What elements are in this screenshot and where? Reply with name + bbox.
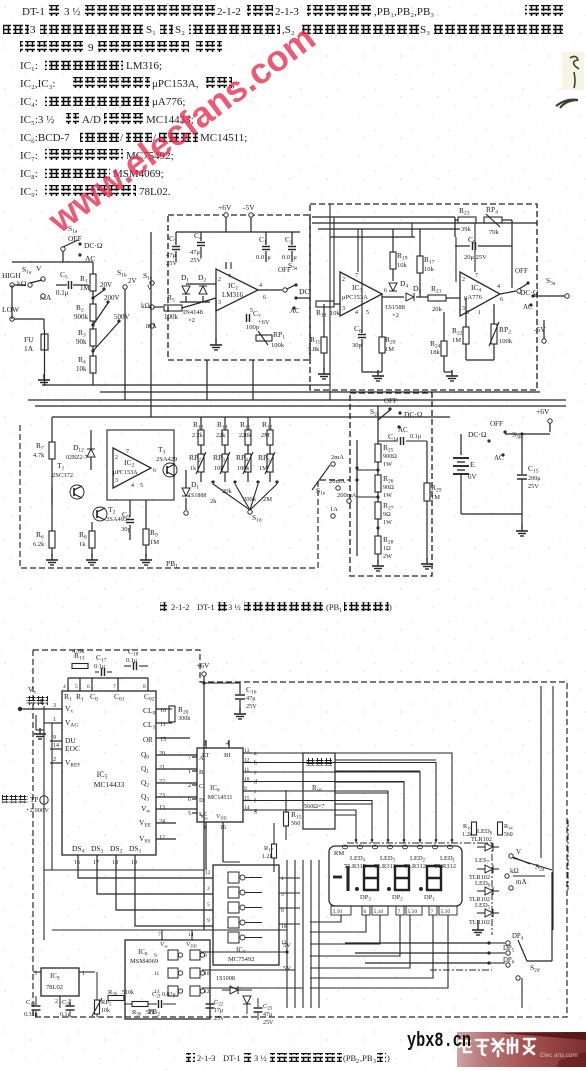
svg-text:19: 19 bbox=[131, 860, 137, 866]
svg-text:10k: 10k bbox=[101, 1008, 110, 1014]
svg-text:510k: 510k bbox=[122, 990, 134, 996]
svg-text:2SC372: 2SC372 bbox=[52, 472, 73, 479]
svg-text:E: E bbox=[40, 698, 44, 706]
svg-text:1W: 1W bbox=[383, 519, 392, 526]
svg-text:VDD: VDD bbox=[186, 942, 197, 949]
svg-text:TLR102: TLR102 bbox=[469, 919, 490, 926]
svg-text:A/D: A/D bbox=[82, 114, 101, 126]
svg-text:6: 6 bbox=[500, 297, 503, 303]
svg-text:25V: 25V bbox=[246, 703, 257, 710]
svg-text:kΩ: kΩ bbox=[141, 302, 150, 310]
svg-text:7: 7 bbox=[475, 273, 478, 279]
svg-text:IC₄:: IC₄: bbox=[20, 96, 38, 108]
svg-text:13: 13 bbox=[244, 748, 250, 754]
svg-text:EOC: EOC bbox=[65, 744, 80, 753]
svg-text:1M: 1M bbox=[385, 346, 394, 353]
svg-text:μPC153A: μPC153A bbox=[113, 469, 138, 476]
svg-text:(PB: (PB bbox=[343, 1053, 357, 1063]
svg-text:1M: 1M bbox=[259, 465, 268, 472]
svg-text:6: 6 bbox=[188, 797, 191, 803]
svg-text:MC14511: MC14511 bbox=[208, 794, 233, 801]
svg-text:5: 5 bbox=[188, 811, 191, 817]
svg-text:100k: 100k bbox=[164, 313, 179, 321]
svg-text:MC14433: MC14433 bbox=[94, 780, 125, 789]
svg-text:70k: 70k bbox=[489, 229, 500, 236]
svg-text:8: 8 bbox=[143, 684, 146, 690]
svg-text:b: b bbox=[254, 761, 257, 767]
svg-text:78L02.: 78L02. bbox=[139, 186, 171, 198]
svg-text:3: 3 bbox=[53, 703, 56, 709]
svg-text:560Ω×7: 560Ω×7 bbox=[304, 803, 324, 810]
svg-text:): ) bbox=[387, 1053, 390, 1063]
svg-text:12: 12 bbox=[205, 870, 211, 876]
svg-text:5,10: 5,10 bbox=[441, 909, 451, 915]
svg-text:10: 10 bbox=[281, 924, 287, 930]
svg-text:×2: ×2 bbox=[188, 317, 195, 324]
svg-text:OR: OR bbox=[143, 736, 153, 744]
svg-text:): ) bbox=[389, 602, 392, 612]
svg-text:0.1μ: 0.1μ bbox=[410, 433, 422, 440]
svg-text:μPC153A: μPC153A bbox=[342, 294, 368, 301]
svg-text:2: 2 bbox=[53, 757, 56, 763]
svg-text:DC: DC bbox=[299, 287, 309, 296]
svg-text:20μ 25V: 20μ 25V bbox=[464, 254, 487, 261]
svg-text:Vss: Vss bbox=[200, 814, 208, 821]
svg-text:0.02μ: 0.02μ bbox=[162, 992, 176, 998]
svg-text:900Ω: 900Ω bbox=[383, 453, 397, 460]
svg-text:200μ: 200μ bbox=[528, 475, 541, 482]
svg-text:4: 4 bbox=[355, 310, 358, 316]
svg-text:3,10: 3,10 bbox=[333, 909, 343, 915]
svg-text:5: 5 bbox=[366, 310, 369, 316]
svg-text:2: 2 bbox=[356, 1059, 359, 1065]
svg-text:6: 6 bbox=[364, 909, 367, 915]
svg-text:11: 11 bbox=[154, 971, 160, 977]
svg-text:2-1-2: 2-1-2 bbox=[171, 602, 189, 612]
svg-text:4: 4 bbox=[131, 483, 134, 489]
svg-text:14: 14 bbox=[188, 932, 194, 938]
svg-text:25V: 25V bbox=[214, 1016, 225, 1022]
svg-text:DT-1: DT-1 bbox=[197, 602, 215, 612]
svg-text:TLR102: TLR102 bbox=[471, 836, 492, 843]
svg-text:1S1888: 1S1888 bbox=[188, 493, 206, 499]
svg-text:14: 14 bbox=[53, 743, 59, 749]
svg-text:MSM4069: MSM4069 bbox=[130, 958, 158, 965]
svg-text:200V: 200V bbox=[104, 294, 120, 302]
svg-text:10k: 10k bbox=[76, 365, 87, 373]
svg-text:DC·Ω: DC·Ω bbox=[84, 241, 103, 250]
svg-text:02BZ2-7: 02BZ2-7 bbox=[66, 455, 88, 461]
svg-text:7: 7 bbox=[158, 932, 161, 938]
svg-text:μA776: μA776 bbox=[464, 294, 483, 301]
svg-text:c: c bbox=[254, 770, 257, 776]
svg-text:20k: 20k bbox=[432, 306, 443, 313]
svg-text:14: 14 bbox=[244, 805, 250, 811]
svg-text:E: E bbox=[470, 460, 475, 469]
svg-text:BI: BI bbox=[224, 752, 231, 759]
svg-text:1W: 1W bbox=[383, 461, 392, 468]
svg-text:2mA: 2mA bbox=[331, 454, 344, 461]
svg-text:6: 6 bbox=[384, 288, 387, 294]
svg-text:25V: 25V bbox=[166, 260, 178, 267]
svg-text:2SA429: 2SA429 bbox=[156, 456, 177, 463]
svg-text:9: 9 bbox=[207, 918, 210, 924]
svg-text:20V: 20V bbox=[100, 281, 112, 289]
svg-text:+2.000V: +2.000V bbox=[26, 807, 49, 814]
svg-text:10k: 10k bbox=[214, 465, 224, 472]
svg-text:10k: 10k bbox=[424, 266, 435, 273]
svg-text:OFF: OFF bbox=[384, 397, 397, 405]
svg-text:RM: RM bbox=[334, 850, 344, 857]
svg-text:2-1-3: 2-1-3 bbox=[197, 1053, 215, 1063]
svg-text:20: 20 bbox=[159, 751, 165, 757]
svg-text:17μ: 17μ bbox=[214, 1008, 223, 1014]
svg-text:13: 13 bbox=[159, 805, 165, 811]
svg-text:2: 2 bbox=[207, 886, 210, 892]
svg-text:9: 9 bbox=[88, 42, 94, 54]
svg-text:47μ: 47μ bbox=[190, 249, 201, 256]
svg-text:2-1-3: 2-1-3 bbox=[275, 6, 299, 18]
svg-text:2.2k: 2.2k bbox=[192, 432, 204, 439]
svg-text:DT-1: DT-1 bbox=[223, 1053, 241, 1063]
svg-text:3: 3 bbox=[342, 306, 345, 312]
svg-text:V: V bbox=[516, 848, 521, 856]
svg-text:,PB₁,PB₂,PB₃: ,PB₁,PB₂,PB₃ bbox=[374, 6, 434, 18]
svg-text:1: 1 bbox=[478, 310, 481, 316]
svg-text:100k: 100k bbox=[499, 338, 513, 345]
svg-text:1M: 1M bbox=[80, 284, 91, 292]
svg-text:2: 2 bbox=[342, 277, 345, 283]
svg-text:1.2k: 1.2k bbox=[262, 854, 273, 860]
svg-text:a: a bbox=[254, 751, 257, 757]
svg-text:,PB: ,PB bbox=[360, 1053, 373, 1063]
svg-text:-5V: -5V bbox=[243, 203, 255, 212]
svg-text:VDD: VDD bbox=[216, 814, 227, 821]
svg-text:d: d bbox=[254, 780, 257, 786]
svg-text:1k: 1k bbox=[79, 541, 86, 548]
svg-text:IN4148: IN4148 bbox=[183, 309, 203, 316]
svg-text:22: 22 bbox=[159, 779, 165, 785]
svg-text:500V: 500V bbox=[114, 313, 130, 321]
svg-text:1: 1 bbox=[339, 608, 342, 614]
svg-text:1S1008: 1S1008 bbox=[216, 975, 235, 982]
svg-text:7: 7 bbox=[355, 273, 358, 279]
svg-text:IC₆:BCD-7: IC₆:BCD-7 bbox=[20, 132, 70, 144]
svg-text:10k: 10k bbox=[397, 262, 408, 269]
svg-text:1W: 1W bbox=[383, 492, 392, 499]
svg-text:4: 4 bbox=[63, 684, 66, 690]
svg-text:MC75492: MC75492 bbox=[228, 956, 254, 963]
svg-text:7: 7 bbox=[188, 755, 191, 761]
svg-text:OFF: OFF bbox=[490, 420, 503, 428]
svg-text:3: 3 bbox=[115, 478, 118, 484]
svg-text:LM316;: LM316; bbox=[126, 60, 162, 72]
svg-text:1M: 1M bbox=[452, 337, 461, 344]
svg-text:Vss: Vss bbox=[160, 942, 168, 949]
svg-text:4.7k: 4.7k bbox=[33, 452, 45, 459]
svg-text:+6V: +6V bbox=[258, 319, 270, 326]
svg-text:47μ: 47μ bbox=[263, 1012, 272, 1018]
svg-text:39k: 39k bbox=[461, 226, 472, 233]
svg-text:2: 2 bbox=[188, 783, 191, 789]
svg-text:1.2k: 1.2k bbox=[462, 832, 472, 838]
svg-text:IC₂,IC₃:: IC₂,IC₃: bbox=[20, 78, 55, 90]
svg-text:5: 5 bbox=[140, 483, 143, 489]
svg-text:1: 1 bbox=[188, 769, 191, 775]
svg-text:9: 9 bbox=[154, 953, 157, 959]
svg-text:5: 5 bbox=[75, 684, 78, 690]
svg-text:560: 560 bbox=[504, 832, 513, 838]
svg-text:10k: 10k bbox=[330, 310, 341, 317]
svg-text:3: 3 bbox=[30, 24, 36, 36]
svg-text:1: 1 bbox=[53, 717, 56, 723]
svg-text:25V: 25V bbox=[190, 257, 202, 264]
svg-text:2V: 2V bbox=[128, 277, 137, 285]
svg-text:1S1588: 1S1588 bbox=[385, 304, 405, 311]
svg-text:1M: 1M bbox=[431, 494, 440, 501]
svg-text:6.2k: 6.2k bbox=[33, 541, 45, 548]
svg-text:7: 7 bbox=[126, 449, 129, 455]
svg-text:15: 15 bbox=[244, 796, 250, 802]
svg-text:IC₅:3 ½: IC₅:3 ½ bbox=[20, 114, 54, 126]
svg-text:6: 6 bbox=[153, 468, 156, 474]
svg-text:V: V bbox=[36, 264, 42, 273]
svg-text:0.1μ: 0.1μ bbox=[126, 657, 138, 664]
svg-text:10: 10 bbox=[244, 777, 250, 783]
svg-text:23: 23 bbox=[159, 793, 165, 799]
svg-text:1A: 1A bbox=[330, 506, 338, 513]
svg-text:4: 4 bbox=[259, 283, 262, 289]
svg-text:100k: 100k bbox=[271, 342, 285, 349]
svg-text:0.1μ: 0.1μ bbox=[94, 663, 106, 670]
svg-text:6: 6 bbox=[87, 684, 90, 690]
svg-text:47μ: 47μ bbox=[166, 252, 177, 259]
svg-text:2-1-2: 2-1-2 bbox=[217, 6, 241, 18]
svg-text:1k: 1k bbox=[190, 465, 197, 472]
svg-text:3: 3 bbox=[218, 300, 221, 306]
svg-text:mA: mA bbox=[516, 878, 527, 886]
svg-text:1Ω: 1Ω bbox=[383, 545, 391, 552]
svg-text:51k: 51k bbox=[146, 1010, 155, 1016]
svg-text:S₃: S₃ bbox=[420, 24, 430, 36]
svg-text:2: 2 bbox=[462, 277, 465, 283]
svg-text:IC₈:: IC₈: bbox=[20, 168, 38, 180]
svg-text:kΩ: kΩ bbox=[17, 279, 27, 288]
svg-text:0.01μ: 0.01μ bbox=[282, 254, 297, 261]
svg-text:4: 4 bbox=[497, 284, 500, 290]
svg-text:1M: 1M bbox=[150, 539, 159, 546]
svg-text:DC·Ω: DC·Ω bbox=[468, 430, 487, 439]
svg-text:18: 18 bbox=[112, 860, 118, 866]
svg-text:5V: 5V bbox=[283, 942, 291, 949]
svg-text:IC₁:: IC₁: bbox=[20, 60, 38, 72]
svg-text:25V: 25V bbox=[528, 483, 539, 490]
svg-text:9Ω: 9Ω bbox=[383, 511, 391, 518]
svg-text:5,10: 5,10 bbox=[374, 909, 384, 915]
svg-text:25V: 25V bbox=[263, 1020, 274, 1026]
svg-text:5.8k: 5.8k bbox=[308, 346, 320, 353]
svg-text:21: 21 bbox=[159, 765, 165, 771]
svg-text:3: 3 bbox=[462, 306, 465, 312]
svg-text:10: 10 bbox=[204, 971, 210, 977]
svg-text:100k: 100k bbox=[237, 465, 250, 472]
svg-text:7: 7 bbox=[398, 909, 401, 915]
svg-text:DT-1: DT-1 bbox=[22, 6, 45, 18]
svg-text:C: C bbox=[199, 783, 203, 790]
svg-text:IC₇:: IC₇: bbox=[20, 150, 38, 162]
svg-text:2M: 2M bbox=[263, 496, 272, 503]
svg-text:300k: 300k bbox=[178, 715, 191, 722]
svg-text:1A: 1A bbox=[24, 344, 34, 353]
svg-text:200mA: 200mA bbox=[337, 492, 357, 499]
svg-text:2: 2 bbox=[55, 999, 58, 1005]
svg-text:12: 12 bbox=[244, 758, 250, 764]
svg-text:11: 11 bbox=[244, 767, 250, 773]
svg-text:20mA: 20mA bbox=[329, 478, 346, 485]
svg-text:6: 6 bbox=[263, 295, 266, 301]
svg-text:3 ½: 3 ½ bbox=[254, 1053, 267, 1063]
svg-text:47μ: 47μ bbox=[246, 695, 256, 702]
svg-text:1: 1 bbox=[281, 876, 284, 882]
svg-text:16: 16 bbox=[74, 860, 80, 866]
svg-text:g: g bbox=[254, 808, 257, 814]
svg-text:LM316: LM316 bbox=[222, 291, 244, 299]
svg-text:90k: 90k bbox=[76, 338, 87, 346]
svg-text:(PB: (PB bbox=[326, 602, 340, 612]
svg-text:7: 7 bbox=[431, 909, 434, 915]
svg-text:2k: 2k bbox=[210, 498, 217, 505]
svg-text:12: 12 bbox=[204, 989, 210, 995]
svg-text:9: 9 bbox=[53, 735, 56, 741]
svg-text:3 ½: 3 ½ bbox=[64, 6, 81, 18]
svg-text:kΩ: kΩ bbox=[510, 867, 519, 875]
svg-text:7: 7 bbox=[113, 684, 116, 690]
svg-text:9: 9 bbox=[244, 786, 247, 792]
svg-text:17: 17 bbox=[93, 860, 99, 866]
svg-text:2W: 2W bbox=[383, 553, 392, 560]
svg-text:TP: TP bbox=[30, 796, 38, 804]
svg-text:560: 560 bbox=[291, 820, 300, 827]
svg-text:μPC153A,: μPC153A, bbox=[152, 78, 199, 90]
svg-text:2: 2 bbox=[115, 455, 118, 461]
svg-text:5,10: 5,10 bbox=[408, 909, 418, 915]
svg-text:470k: 470k bbox=[72, 648, 85, 655]
svg-text:S₂: S₂ bbox=[175, 24, 185, 36]
svg-text:D: D bbox=[199, 797, 204, 804]
svg-text:5: 5 bbox=[207, 902, 210, 908]
svg-text:78L02: 78L02 bbox=[46, 984, 63, 991]
svg-text:ybx8.cn: ybx8.cn bbox=[407, 1030, 471, 1053]
svg-text:18k: 18k bbox=[430, 349, 441, 356]
svg-text:S₁: S₁ bbox=[146, 24, 156, 36]
svg-text:+6V: +6V bbox=[536, 407, 550, 416]
svg-text:A: A bbox=[199, 755, 204, 762]
svg-text:B: B bbox=[199, 769, 204, 776]
svg-text:3 ½: 3 ½ bbox=[228, 602, 241, 612]
svg-text:6V: 6V bbox=[468, 473, 477, 481]
svg-text:×2: ×2 bbox=[392, 312, 399, 319]
svg-text:900k: 900k bbox=[74, 313, 89, 321]
svg-text:24: 24 bbox=[159, 819, 165, 825]
svg-text:220k: 220k bbox=[239, 432, 252, 439]
svg-text:2: 2 bbox=[218, 277, 221, 283]
svg-text:7: 7 bbox=[228, 274, 231, 280]
svg-text:0.1μ: 0.1μ bbox=[56, 289, 69, 297]
svg-text:DC·Ω: DC·Ω bbox=[404, 410, 423, 419]
svg-text:FU: FU bbox=[24, 335, 34, 344]
svg-text:+6V: +6V bbox=[218, 203, 232, 212]
svg-text:5V: 5V bbox=[283, 965, 291, 972]
svg-text:LOW: LOW bbox=[2, 305, 20, 314]
svg-text:e: e bbox=[254, 789, 257, 795]
svg-text:12: 12 bbox=[159, 835, 165, 841]
svg-text:22k: 22k bbox=[216, 432, 226, 439]
svg-text:OFF: OFF bbox=[515, 267, 528, 275]
svg-text:30p: 30p bbox=[352, 342, 362, 349]
svg-text:+6V: +6V bbox=[196, 661, 210, 670]
svg-text:2M: 2M bbox=[261, 432, 270, 439]
svg-text:8: 8 bbox=[204, 953, 207, 959]
svg-text:0.01μ: 0.01μ bbox=[256, 254, 271, 261]
svg-text:30p: 30p bbox=[121, 526, 131, 533]
svg-text:0.1μ: 0.1μ bbox=[60, 1012, 71, 1018]
svg-text:3: 3 bbox=[373, 1059, 376, 1065]
svg-text:8: 8 bbox=[281, 908, 284, 914]
svg-text:Elec ans.com: Elec ans.com bbox=[540, 1052, 578, 1059]
svg-text:IC₉:: IC₉: bbox=[20, 186, 38, 198]
svg-text:90Ω: 90Ω bbox=[383, 484, 394, 491]
